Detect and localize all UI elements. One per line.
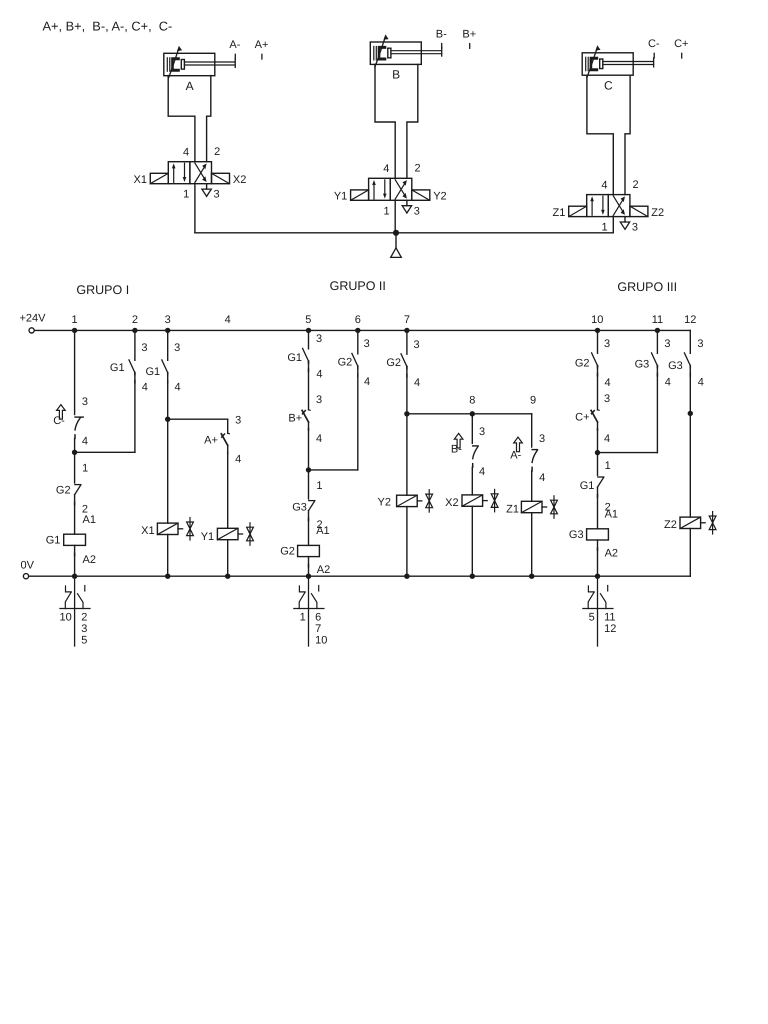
svg-text:9: 9 [530,395,536,407]
cylinder C adjust arrow [587,49,597,78]
svg-text:B: B [392,68,400,82]
junction rung10/rung11 [595,450,600,455]
wire rung11 down [656,366,658,453]
wire rung6 down [357,366,359,470]
valve solenoid Z1 [521,501,542,512]
junction rung7 0V [404,574,409,579]
svg-text:A-: A- [229,39,240,51]
junction rung5/rung6 [306,467,311,472]
svg-text:2: 2 [214,146,220,158]
svg-text:1: 1 [316,480,322,492]
valve V1 left position arrows [173,168,175,182]
NO contact G3 rung12 [684,353,690,366]
svg-text:4: 4 [175,381,181,393]
wire rung5 to junction [308,422,310,470]
valve V3 crossed arrows [613,199,623,215]
cylinder C end cap [585,57,587,70]
svg-text:4: 4 [142,381,148,393]
svg-text:GRUPO III: GRUPO III [617,280,677,294]
cylinder B piston [378,46,387,61]
svg-text:10: 10 [60,612,72,624]
NO contact G2 rung7 [401,354,407,367]
svg-text:A2: A2 [317,564,330,576]
svg-text:12: 12 [684,314,696,326]
junction rung10 0V [595,574,600,579]
junction rung7 branch [404,411,409,416]
svg-text:2: 2 [132,314,138,326]
junction rung5 0V [306,574,311,579]
svg-text:4: 4 [183,146,189,158]
cylinder B body [370,42,421,64]
svg-text:G2: G2 [386,357,401,369]
valve V3 solenoid Z2 [630,206,648,216]
svg-text:3: 3 [364,338,370,350]
svg-text:Z1: Z1 [506,503,519,515]
svg-text:4: 4 [316,433,322,445]
svg-text:5: 5 [589,612,595,624]
svg-text:G3: G3 [668,360,683,372]
junction rung3 0V [165,574,170,579]
cylinder A end cap [166,58,168,71]
relay coil G3 [587,529,609,540]
svg-text:X1: X1 [141,525,154,537]
svg-text:C-: C- [53,415,65,427]
svg-text:4: 4 [383,163,389,175]
wire rung11 top [656,330,658,353]
wire rung11 to rung10 [598,452,658,454]
valve V1 exhaust port 3 [206,184,208,189]
valve solenoid Y1 [217,528,238,539]
svg-text:G1: G1 [287,352,302,364]
svg-text:A2: A2 [83,554,96,566]
limit switch contact C+ [598,409,600,412]
svg-text:C: C [604,78,613,92]
svg-text:3: 3 [697,338,703,350]
wire branch rungs 8-9 [407,413,532,415]
valve V3 exhaust port 3 [624,217,626,222]
svg-text:4: 4 [698,377,704,389]
svg-text:4: 4 [414,377,420,389]
wire rung8 bottom [471,506,473,576]
svg-text:4: 4 [479,466,485,478]
svg-text:3: 3 [81,623,87,635]
wire rung7 top [406,330,408,354]
svg-text:C-: C- [648,38,660,50]
svg-text:GRUPO II: GRUPO II [330,279,386,293]
svg-text:A+: A+ [204,435,218,447]
tube cylinder C to valve V3 port 4 [587,76,613,195]
svg-text:G3: G3 [292,502,307,514]
svg-text:2: 2 [633,179,639,191]
tube cylinder B to valve V2 port 4 [375,64,395,178]
junction rung4 0V [225,574,230,579]
junction +24V rail x=74.6 [72,328,77,333]
wire rung4 to Y1 [227,445,229,528]
svg-text:3: 3 [235,414,241,426]
valve V1 solenoid X1 [150,173,168,183]
wire rung6 to rung5 [309,469,358,471]
junction +24V rail x=134.9 [132,328,137,333]
junction +24V rail x=308.5 [306,328,311,333]
svg-text:11: 11 [604,612,615,624]
wire rung1 to coil [74,495,76,535]
manifold junction [393,230,399,236]
wire rung10 to coil [597,487,599,529]
NC contact G3 [309,500,315,502]
valve V2 body [369,178,391,200]
valve solenoid X2 [462,495,483,506]
svg-text:7: 7 [315,623,321,635]
svg-text:3: 3 [213,189,219,201]
svg-text:A1: A1 [316,525,329,537]
supply line valve V2 port 1 [394,200,396,233]
svg-text:3: 3 [141,342,147,354]
NC contact G1 rung10 [598,476,604,478]
limit switch contact B- [473,445,478,447]
relay coil G1 [64,534,86,545]
junction +24V rail x=597.5 [595,328,600,333]
junction +24V rail x=657.4 [655,328,660,333]
valve solenoid Z2 [680,517,701,528]
cylinder C body [582,53,633,75]
wire rung10 to G1 [597,453,599,476]
svg-text:4: 4 [665,377,671,389]
cylinder B piston rod [391,50,442,52]
limit switch contact A- [532,449,537,451]
cylinder A rod guide [181,60,184,70]
svg-text:4: 4 [82,436,88,448]
tube cylinder C to valve V3 port 2 [625,76,630,195]
NO contact G2 rung6 [352,353,358,366]
supply line valve V3 port 1 [612,217,614,233]
wire rung4 bottom [227,540,229,577]
wire rung5 mid [308,361,310,410]
svg-text:A+, B+, B-, A-, C+, C-: A+, B+, B-, A-, C+, C- [43,19,173,34]
svg-text:A2: A2 [605,548,618,560]
junction +24V rail x=357.8 [355,328,360,333]
cylinder C piston rod [603,61,654,63]
svg-text:4: 4 [235,453,241,465]
wire rung7 mid [406,367,408,414]
svg-text:G3: G3 [569,529,584,541]
svg-text:1: 1 [82,463,88,475]
svg-text:1: 1 [605,460,611,472]
NO contact G3 rung11 [652,353,658,366]
svg-text:5: 5 [305,314,311,326]
wire rung3 bottom [167,535,169,577]
limit switch contact C- [75,416,83,418]
svg-text:3: 3 [316,333,322,345]
valve V2 solenoid Y2 [412,190,430,200]
svg-text:3: 3 [479,426,485,438]
valve V3 solenoid Z1 [569,206,587,216]
svg-text:Y2: Y2 [433,191,446,203]
svg-text:G2: G2 [280,546,295,558]
svg-text:A1: A1 [83,514,96,526]
wire rung2 down [134,373,136,453]
svg-text:4: 4 [604,377,610,389]
svg-text:3: 3 [414,339,420,351]
valve V3 left position arrows [591,201,593,215]
NO contact G2 rung10 [592,353,598,366]
svg-text:GRUPO I: GRUPO I [76,283,129,297]
svg-text:1: 1 [72,314,78,326]
svg-text:10: 10 [591,314,603,326]
svg-text:3: 3 [414,205,420,217]
svg-text:4: 4 [539,472,545,484]
valve V1 body [168,162,190,184]
wire rung9 top [531,414,533,447]
cylinder B adjust arrow [375,39,385,68]
svg-text:X1: X1 [134,174,147,186]
junction rung1 0V [72,574,77,579]
svg-text:1: 1 [183,189,189,201]
svg-text:8: 8 [469,395,475,407]
wire rung4 top [227,419,229,433]
svg-text:6: 6 [355,314,361,326]
cylinder A adjust arrow [168,50,178,79]
valve V3 body [587,195,609,217]
tube cylinder A to valve V1 port 2 [207,76,211,162]
supply manifold wire [195,232,613,234]
svg-text:Z2: Z2 [664,519,677,531]
svg-text:3: 3 [604,393,610,405]
svg-text:C+: C+ [575,411,589,423]
junction rung8 branch [470,411,475,416]
svg-text:7: 7 [404,314,410,326]
wire rung5 top [308,330,310,348]
svg-text:B+: B+ [288,413,302,425]
junction rung3/rung4 [165,417,170,422]
wire rung1 mid [74,438,76,452]
svg-text:4: 4 [364,376,370,388]
svg-text:1: 1 [300,612,306,624]
tube cylinder A to valve V1 port 4 [168,76,195,162]
wire rung1 to G2 [74,452,76,483]
svg-text:12: 12 [604,623,616,635]
wire rung1 top [74,330,76,414]
wire rung2 to rung1 [75,451,135,453]
svg-text:Y1: Y1 [334,191,347,203]
svg-text:4: 4 [601,179,607,191]
limit switch contact A+ [228,432,230,435]
svg-text:A+: A+ [255,39,269,51]
cylinder A piston [171,57,180,72]
wire rung7 bottom [406,507,408,577]
tube cylinder B to valve V2 port 2 [407,64,418,178]
svg-text:G1: G1 [110,362,125,374]
wire rung2 top [134,330,136,360]
valve V2 exhaust port 3 [406,200,408,205]
cylinder C rod guide [600,59,603,69]
wire rung10 bottom [597,540,599,576]
cylinder B end cap [373,47,375,60]
limit switch contact B+ [309,409,311,412]
wire rung12 top [689,330,691,353]
svg-text:4: 4 [316,369,322,381]
svg-text:2: 2 [81,612,87,624]
wire rung5 bottom [308,557,310,577]
svg-text:0V: 0V [21,560,35,572]
valve V2 left position arrows [373,185,375,199]
svg-text:2: 2 [414,163,420,175]
svg-text:Z1: Z1 [553,207,566,219]
junction rung12 node [688,411,693,416]
svg-text:11: 11 [652,314,663,326]
wire rung5 to coil [308,511,310,546]
NO contact G1 rung3 [162,360,168,373]
wire rung3 to X1 [167,419,169,523]
valve V2 solenoid Y1 [351,190,369,200]
cylinder B rod guide [388,48,391,58]
svg-text:4: 4 [225,314,231,326]
wire rung12 mid [689,366,691,517]
cylinder C piston [590,57,599,72]
NO contact G1 rung2 [129,360,135,373]
cylinder A piston rod [184,61,235,63]
junction +24V rail x=167.7 [165,328,170,333]
svg-text:G2: G2 [56,485,71,497]
junction rung1/rung2 [72,450,77,455]
svg-text:+24V: +24V [20,313,47,325]
contact map G2 [308,576,310,646]
svg-text:X2: X2 [233,174,246,186]
valve V1 crossed arrows [195,166,205,182]
svg-text:3: 3 [632,222,638,234]
svg-text:G1: G1 [146,366,161,378]
svg-text:10: 10 [315,634,327,646]
svg-text:3: 3 [664,338,670,350]
wire rung7 to Y2 [406,414,408,495]
wire rung10 mid [597,366,599,410]
wire rung6 top [357,330,359,353]
svg-text:B-: B- [451,444,462,456]
svg-text:B+: B+ [462,28,476,40]
wire rung3 down [167,373,169,420]
valve solenoid Y2 [397,495,418,506]
contact map G3 [597,576,599,646]
valve solenoid X1 [157,523,178,534]
wire rung8 to X2 [471,467,473,495]
compressed air source [395,233,397,248]
svg-text:Y2: Y2 [378,496,391,508]
wire rung9 to Z1 [531,471,533,501]
wire rung3 top [167,330,169,360]
svg-text:1: 1 [383,205,389,217]
svg-text:A-: A- [510,449,521,461]
contact map G1 [74,576,76,646]
svg-text:G3: G3 [635,359,650,371]
svg-text:Y1: Y1 [201,531,214,543]
valve V2 crossed arrows [395,183,405,199]
svg-text:B-: B- [436,28,447,40]
supply line valve V1 port 1 [194,184,196,233]
relay coil G2 [298,545,320,556]
svg-text:G1: G1 [46,534,61,546]
wire rung8 top [471,414,473,444]
svg-text:6: 6 [315,612,321,624]
valve V1 solenoid X2 [212,173,230,183]
svg-text:A: A [186,79,194,93]
wire rung12 bottom [689,529,691,577]
svg-text:1: 1 [602,222,608,234]
wire rung10 to junction [597,422,599,453]
junction +24V rail x=406.9 [404,328,409,333]
svg-text:3: 3 [174,342,180,354]
svg-text:3: 3 [539,433,545,445]
svg-text:G1: G1 [580,480,595,492]
svg-text:C+: C+ [674,38,688,50]
junction rung9 0V [529,574,534,579]
wire rung9 bottom [531,513,533,577]
wire rung10 top [597,330,599,353]
svg-text:A1: A1 [605,509,618,521]
wire rung5 to G3 [308,470,310,499]
NC contact G2 [75,484,81,486]
wire rung1 bottom [74,545,76,576]
cylinder A body [164,53,215,75]
svg-text:3: 3 [316,394,322,406]
NO contact G1 rung5 [303,348,309,361]
svg-text:X2: X2 [445,497,458,509]
wire rung4 branch [168,418,228,420]
svg-text:4: 4 [604,433,610,445]
svg-text:3: 3 [82,396,88,408]
svg-text:3: 3 [165,314,171,326]
svg-text:G2: G2 [338,357,353,369]
svg-text:G2: G2 [575,357,590,369]
junction rung8 0V [470,574,475,579]
svg-text:5: 5 [81,634,87,646]
svg-text:Z2: Z2 [651,207,664,219]
svg-text:3: 3 [604,338,610,350]
